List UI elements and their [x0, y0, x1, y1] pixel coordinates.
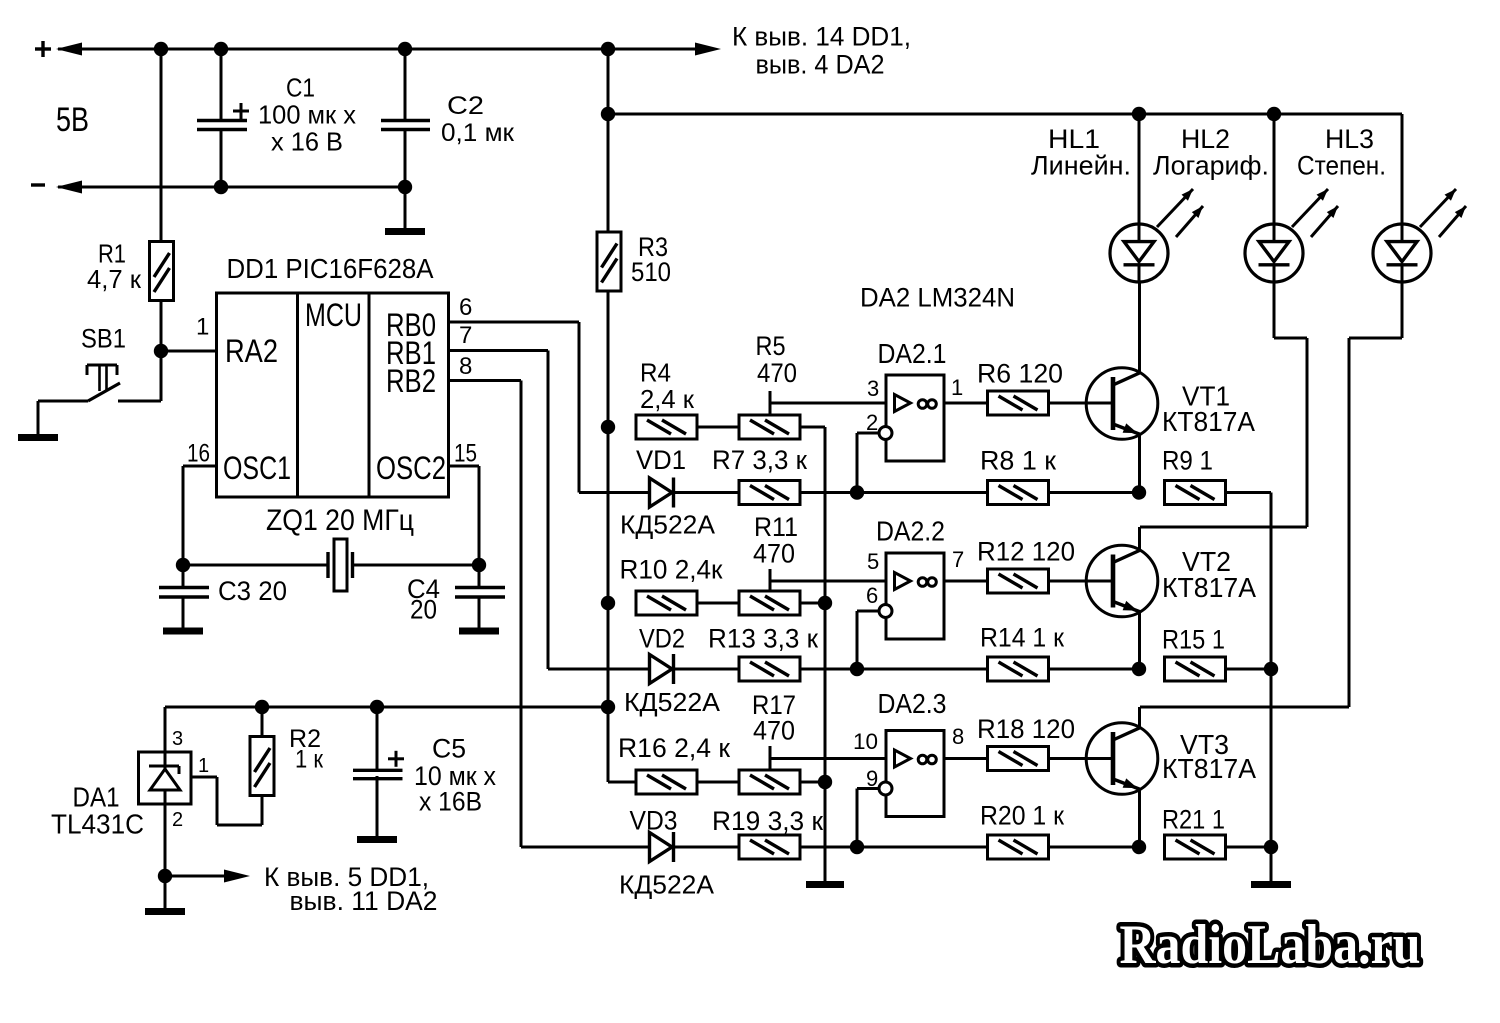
svg-text:15: 15: [454, 440, 477, 468]
label 10 мк х: [414, 761, 496, 791]
svg-text:100 мк х: 100 мк х: [258, 100, 356, 130]
LED HL3: [1373, 224, 1431, 282]
label R21 1: [1162, 805, 1225, 835]
svg-text:0,1 мк: 0,1 мк: [441, 119, 515, 147]
arrow right to pin 14 DD1 / pin 4 DA2: [695, 43, 721, 56]
resistor R10: [636, 591, 697, 615]
label R6 120: [977, 359, 1063, 389]
pin number 1: [196, 314, 209, 341]
label 4,7 к: [87, 264, 142, 294]
svg-text:6: 6: [866, 583, 878, 608]
svg-text:КД522А: КД522А: [624, 687, 721, 717]
junction R15/feedback: [1264, 662, 1278, 676]
wire HL1 to VT1: [1138, 266, 1141, 282]
wire pin 15 OSC2: [449, 466, 480, 565]
label 0,1 мк: [441, 119, 515, 147]
capacitor C3: [159, 565, 209, 630]
pin number 8: [459, 353, 472, 380]
transistor VT2: [1086, 545, 1158, 617]
resistor R3: [597, 232, 621, 291]
wire DA2.2 out to R12: [944, 580, 988, 583]
svg-text:КТ817А: КТ817А: [1162, 572, 1256, 603]
wire R21 to feedback column: [1226, 846, 1271, 849]
label х 16В: [419, 787, 482, 817]
svg-text:DA2 LM324N: DA2 LM324N: [860, 283, 1015, 313]
wire DA1 pin2 down: [164, 804, 167, 876]
label 2,4 к (R4): [640, 384, 695, 414]
wire pin2 to node: [857, 433, 879, 493]
label VD3: [630, 806, 678, 836]
label R16 2,4 к: [618, 733, 730, 763]
svg-text:R4: R4: [640, 358, 671, 388]
wire R11 tap to DA2.2 pin5: [770, 569, 886, 591]
op-amp DA2.2: [879, 553, 944, 639]
wire R2 top: [261, 707, 264, 737]
label RB0: [386, 307, 436, 343]
label R4: [640, 358, 671, 388]
svg-text:9: 9: [866, 766, 878, 791]
junction C3/ZQ1: [176, 558, 190, 572]
wire R14 row: [857, 668, 988, 671]
junction HL rail/HL2: [1267, 107, 1281, 121]
wire pin9 to node: [857, 789, 879, 848]
svg-text:2: 2: [866, 410, 878, 435]
crystal ZQ1: [328, 539, 353, 591]
wire +rail to R3: [607, 49, 610, 232]
label SB1: [81, 324, 126, 354]
pin number 5 (DA2.2): [867, 549, 879, 574]
resistor R19: [739, 835, 800, 859]
label R19 3,3 к: [712, 806, 823, 836]
wire ladder column: [824, 427, 827, 881]
label Степен.: [1297, 151, 1386, 181]
arrow left on +5V rail: [56, 43, 82, 56]
junction ladder/R10: [601, 596, 615, 610]
wire R11 to ladder: [800, 602, 825, 605]
junction DA2.1 pin2 node: [850, 485, 864, 499]
pin number 6 (DA2.2): [866, 583, 878, 608]
junction -rail/C2: [398, 180, 412, 194]
svg-text:20: 20: [410, 595, 437, 625]
svg-text:R18 120: R18 120: [977, 714, 1075, 744]
svg-text:DA2.3: DA2.3: [878, 688, 947, 719]
resistor R18: [988, 747, 1049, 771]
wire pin 6 RB0: [449, 322, 580, 493]
label 20 (C4): [410, 595, 437, 625]
label DA2.1: [878, 338, 947, 369]
pin number 9 (DA2.3): [866, 766, 878, 791]
svg-text:16: 16: [187, 440, 210, 468]
wire R19 to node: [800, 846, 857, 849]
label VT3: [1180, 729, 1229, 760]
pin number 1 (DA2.1): [951, 375, 963, 400]
label R20 1 к: [980, 801, 1064, 831]
ground C3: [163, 598, 203, 631]
label R10 2,4к: [620, 555, 723, 585]
wire VD3 to R19: [675, 846, 739, 849]
svg-text:5В: 5В: [56, 101, 89, 139]
label Логариф.: [1153, 151, 1269, 181]
resistor R5: [739, 415, 800, 439]
svg-text:х 16В: х 16В: [419, 787, 482, 817]
svg-text:DA2.1: DA2.1: [878, 338, 947, 369]
svg-text:RA2: RA2: [225, 333, 278, 369]
svg-text:DA2.2: DA2.2: [876, 516, 945, 547]
wire pin 8 RB2: [449, 381, 522, 848]
junction +rail/R3: [601, 42, 615, 56]
svg-text:C5: C5: [432, 734, 466, 764]
C5 plus mark: [388, 751, 404, 767]
pin number 8 (DA2.3): [952, 724, 964, 749]
LED HL1: [1110, 224, 1168, 282]
ground feedback column: [1251, 847, 1291, 885]
wire pin 16 OSC1: [183, 466, 217, 565]
resistor R20: [988, 835, 1049, 859]
capacitor C1: [197, 49, 247, 187]
svg-text:КТ817А: КТ817А: [1162, 753, 1256, 784]
junction C4/ZQ1: [472, 558, 486, 572]
junction DA2.2 pin6 node: [850, 662, 864, 676]
ground C4: [459, 598, 499, 631]
label C4: [407, 574, 440, 604]
wire R3 to R4 node: [607, 291, 610, 427]
svg-text:4,7 к: 4,7 к: [87, 264, 142, 294]
label VD2: [639, 624, 685, 654]
wire VT1 emitter down: [1138, 434, 1141, 493]
pin number 3 (DA1): [172, 728, 183, 750]
svg-text:2: 2: [172, 809, 183, 831]
svg-text:8: 8: [952, 724, 964, 749]
resistor R17: [739, 770, 800, 794]
label R15 1: [1162, 625, 1225, 655]
wire VT2 emitter down: [1138, 612, 1141, 669]
svg-text:C2: C2: [447, 92, 484, 120]
wire feedback column to ground: [1270, 669, 1273, 881]
wire +rail to R1: [160, 49, 163, 242]
label HL3: [1325, 124, 1374, 154]
wire VD2 to R13: [675, 668, 739, 671]
ground ladder: [806, 782, 844, 885]
svg-text:К выв. 14 DD1,: К выв. 14 DD1,: [732, 21, 911, 51]
wire ZQ1 to OSC2: [352, 564, 479, 567]
svg-text:Степен.: Степен.: [1297, 151, 1386, 181]
wire R5 to ladder: [800, 427, 825, 603]
pin number 2 (DA2.1): [866, 410, 878, 435]
wire R13 to node: [800, 668, 857, 671]
label R12 120: [977, 537, 1075, 567]
label OSC1: [223, 450, 291, 486]
diode VD3: [521, 832, 674, 862]
label КД522А (VD2): [624, 687, 721, 717]
svg-text:C1: C1: [286, 73, 315, 103]
wire HL2 to VT2 collector: [1140, 266, 1308, 550]
label КТ817А (VT1): [1162, 406, 1255, 437]
wire R20 to VT3 emitter: [1048, 846, 1139, 849]
junction R1/SB1/RA2: [154, 344, 168, 358]
svg-text:HL2: HL2: [1181, 124, 1230, 154]
wire R3 column to R10: [607, 427, 610, 707]
wire R17 tap to DA2.3 pin10: [770, 746, 886, 770]
pin number 10 (DA2.3): [853, 729, 878, 754]
junction -rail/C1: [214, 180, 228, 194]
arrow left on -5V rail: [56, 181, 82, 194]
plus sign: [35, 41, 51, 57]
resistor R6: [988, 391, 1049, 415]
svg-text:1: 1: [196, 314, 209, 341]
label DA2.3: [878, 688, 947, 719]
wire pin1 RA2: [161, 350, 217, 353]
wire R20 row: [857, 846, 988, 849]
pin number 7: [459, 322, 472, 349]
svg-text:Логариф.: Логариф.: [1153, 151, 1269, 181]
capacitor C5: [353, 707, 403, 835]
wire R8 to VT1 emitter: [1048, 491, 1139, 494]
svg-text:MCU: MCU: [305, 297, 362, 333]
resistor R9: [1165, 481, 1226, 505]
label 100 мк х: [258, 100, 356, 130]
capacitor C4: [455, 565, 505, 630]
regulator DA1 TL431C: [139, 752, 192, 804]
label 510: [631, 257, 671, 287]
label КТ817А (VT3): [1162, 753, 1256, 784]
svg-text:10: 10: [853, 729, 878, 754]
svg-text:R21 1: R21 1: [1162, 805, 1225, 835]
wire ladder to R16: [608, 707, 636, 782]
junction VT1 emitter/R9: [1132, 485, 1146, 499]
label HL1: [1048, 124, 1100, 154]
junction DA1 row/ladder: [601, 700, 615, 714]
svg-text:1: 1: [951, 375, 963, 400]
resistor R8: [988, 481, 1049, 505]
wire HL rail end corner: [1401, 114, 1404, 242]
svg-text:R19 3,3 к: R19 3,3 к: [712, 806, 823, 836]
wire DA2.3 out to R18: [944, 757, 988, 760]
junction +rail/C1: [214, 42, 228, 56]
label х 16 В: [271, 127, 343, 157]
wire R14 to VT2 emitter: [1048, 668, 1139, 671]
label К выв. 5 DD1,: [264, 862, 429, 892]
label R9 1: [1162, 446, 1213, 476]
label VT2: [1182, 546, 1231, 577]
label 1 к (R2): [295, 746, 324, 774]
svg-text:470: 470: [753, 539, 795, 569]
wire R1 to node RA2: [160, 300, 163, 351]
svg-text:510: 510: [631, 257, 671, 287]
label R13 3,3 к: [708, 624, 818, 654]
logo RadioLaba.ru: [1120, 914, 1421, 976]
label КТ817А (VT2): [1162, 572, 1256, 603]
junction VT3 emitter/R21: [1132, 840, 1146, 854]
junction VT2 emitter/R15: [1132, 662, 1146, 676]
wire VD1 to R7: [675, 491, 739, 494]
pin number 15: [454, 440, 477, 468]
svg-text:R6 120: R6 120: [977, 359, 1063, 389]
svg-text:OSC2: OSC2: [376, 450, 446, 486]
svg-text:OSC1: OSC1: [223, 450, 291, 486]
label DA2 LM324N: [860, 283, 1015, 313]
svg-text:КД522А: КД522А: [619, 870, 715, 900]
pin number 6: [459, 294, 472, 321]
wire HL3 to VT3 collector: [1140, 266, 1403, 728]
svg-text:Линейн.: Линейн.: [1031, 151, 1131, 181]
label 470 (R5): [757, 358, 797, 388]
svg-text:VD3: VD3: [630, 806, 678, 836]
label DA1: [73, 782, 120, 813]
label DA2.2: [876, 516, 945, 547]
resistor R4: [636, 415, 697, 439]
label выв. 4 DA2: [756, 49, 885, 79]
resistor R11: [739, 591, 800, 615]
junction R3/HL rail: [601, 107, 615, 121]
transistor VT3: [1086, 723, 1158, 795]
junction +rail/C2: [398, 42, 412, 56]
label C5: [432, 734, 466, 764]
junction ladder low: [818, 775, 832, 789]
junction DA1 row/R2: [255, 700, 269, 714]
label R1: [98, 239, 126, 269]
wire R4 to R5: [697, 426, 739, 429]
wire R12 to VT2 base: [1048, 580, 1112, 583]
svg-text:HL1: HL1: [1048, 124, 1100, 154]
wire HL1 top: [1138, 114, 1141, 242]
svg-text:VD1: VD1: [636, 445, 686, 475]
label выв. 11 DA2: [290, 886, 438, 916]
label R17: [752, 690, 796, 720]
capacitor C2: [381, 49, 430, 229]
junction +rail/R1: [154, 42, 168, 56]
label RA2: [225, 333, 278, 369]
label R14 1 к: [980, 623, 1064, 653]
C1 plus mark: [233, 103, 249, 119]
svg-text:RadioLaba.ru: RadioLaba.ru: [1120, 914, 1421, 976]
svg-text:R20 1 к: R20 1 к: [980, 801, 1064, 831]
wire R5 tap to DA2.1 pin3: [770, 391, 886, 415]
svg-text:КД522А: КД522А: [620, 510, 716, 540]
label MCU: [305, 297, 362, 333]
resistor R14: [988, 657, 1049, 681]
svg-text:R14 1 к: R14 1 к: [980, 623, 1064, 653]
svg-text:R10 2,4к: R10 2,4к: [620, 555, 723, 585]
svg-text:HL3: HL3: [1325, 124, 1374, 154]
resistor R16: [636, 770, 697, 794]
label DD1 PIC16F628A: [227, 253, 434, 284]
wire pin 7 RB1: [449, 351, 549, 670]
svg-text:2,4 к: 2,4 к: [640, 384, 695, 414]
svg-text:SB1: SB1: [81, 324, 126, 354]
pin number 2 (DA1): [172, 809, 183, 831]
label HL2: [1181, 124, 1230, 154]
wire R8 row: [857, 491, 988, 494]
wire DA1 node row: [165, 706, 608, 709]
resistor R7: [739, 481, 800, 505]
junction ladder mid: [818, 596, 832, 610]
label К выв. 14 DD1,: [732, 21, 911, 51]
pushbutton SB1: [38, 365, 120, 401]
wire R10 to R11: [697, 602, 739, 605]
label OSC2: [376, 450, 446, 486]
pin number 3 (DA2.1): [867, 376, 879, 401]
svg-text:R13 3,3 к: R13 3,3 к: [708, 624, 818, 654]
svg-text:R9 1: R9 1: [1162, 446, 1213, 476]
label R5: [756, 331, 786, 361]
label R2: [289, 725, 321, 753]
svg-text:8: 8: [459, 353, 472, 380]
op-amp DA2.3: [879, 731, 944, 817]
wire R17 to ladder: [800, 781, 825, 784]
svg-text:7: 7: [952, 547, 964, 572]
wire pin6 to node: [857, 611, 879, 669]
minus sign: [31, 183, 45, 186]
svg-text:6: 6: [459, 294, 472, 321]
wire OSC1 to ZQ1: [183, 564, 328, 567]
svg-text:R15 1: R15 1: [1162, 625, 1225, 655]
ground C2: [385, 187, 425, 232]
svg-text:RB2: RB2: [386, 363, 436, 399]
ground C5: [357, 776, 397, 840]
ground DA1: [145, 876, 185, 912]
svg-text:выв. 4 DA2: выв. 4 DA2: [756, 49, 885, 79]
diode VD1: [579, 478, 674, 508]
svg-text:ZQ1 20 МГц: ZQ1 20 МГц: [266, 504, 414, 537]
svg-text:выв. 11 DA2: выв. 11 DA2: [290, 886, 438, 916]
svg-text:C3 20: C3 20: [218, 576, 287, 606]
svg-text:470: 470: [753, 716, 795, 746]
svg-text:R5: R5: [756, 331, 786, 361]
label RB2: [386, 363, 436, 399]
wire to DA1 pin3: [164, 707, 167, 752]
wire HL2 top: [1273, 114, 1276, 242]
pin number 1 (DA1): [198, 755, 209, 777]
junction DA2.3 pin9 node: [850, 840, 864, 854]
svg-text:R11: R11: [754, 512, 798, 542]
svg-text:R12 120: R12 120: [977, 537, 1075, 567]
svg-text:КТ817А: КТ817А: [1162, 406, 1255, 437]
LED HL2: [1245, 224, 1303, 282]
svg-text:3: 3: [867, 376, 879, 401]
label R3: [638, 232, 668, 262]
wire R7 to R8 node: [800, 491, 857, 494]
wire DA1 pin1 to R2: [191, 777, 262, 825]
HL1 light arrows: [1157, 189, 1203, 237]
wire R15 to feedback column: [1226, 668, 1271, 671]
wire HL supply rail: [608, 113, 1402, 116]
label R8 1 к: [980, 446, 1056, 476]
pin number 16: [187, 440, 210, 468]
svg-text:R8 1 к: R8 1 к: [980, 446, 1056, 476]
svg-text:х 16 В: х 16 В: [271, 127, 343, 157]
IC DD1 PIC16F628A box: [217, 293, 449, 497]
label ZQ1 20 МГц: [266, 504, 414, 537]
arrow to pin 5 DD1 / pin 11 DA2: [165, 870, 250, 883]
label 470 (R11): [753, 539, 795, 569]
junction ladder/R4: [601, 420, 615, 434]
label RB1: [386, 335, 436, 371]
label VT1: [1182, 381, 1230, 412]
resistor R1: [150, 242, 174, 301]
label Линейн.: [1031, 151, 1131, 181]
label C3 20: [218, 576, 287, 606]
pin number 7 (DA2.2): [952, 547, 964, 572]
transistor VT1: [1086, 368, 1158, 440]
resistor R12: [988, 569, 1049, 593]
wire +5V rail: [58, 48, 700, 51]
resistor R2: [250, 737, 274, 796]
label VD1: [636, 445, 686, 475]
wire DA2.1 out to R6: [944, 402, 988, 405]
label R18 120: [977, 714, 1075, 744]
HL3 light arrows: [1420, 189, 1466, 237]
svg-text:7: 7: [459, 322, 472, 349]
